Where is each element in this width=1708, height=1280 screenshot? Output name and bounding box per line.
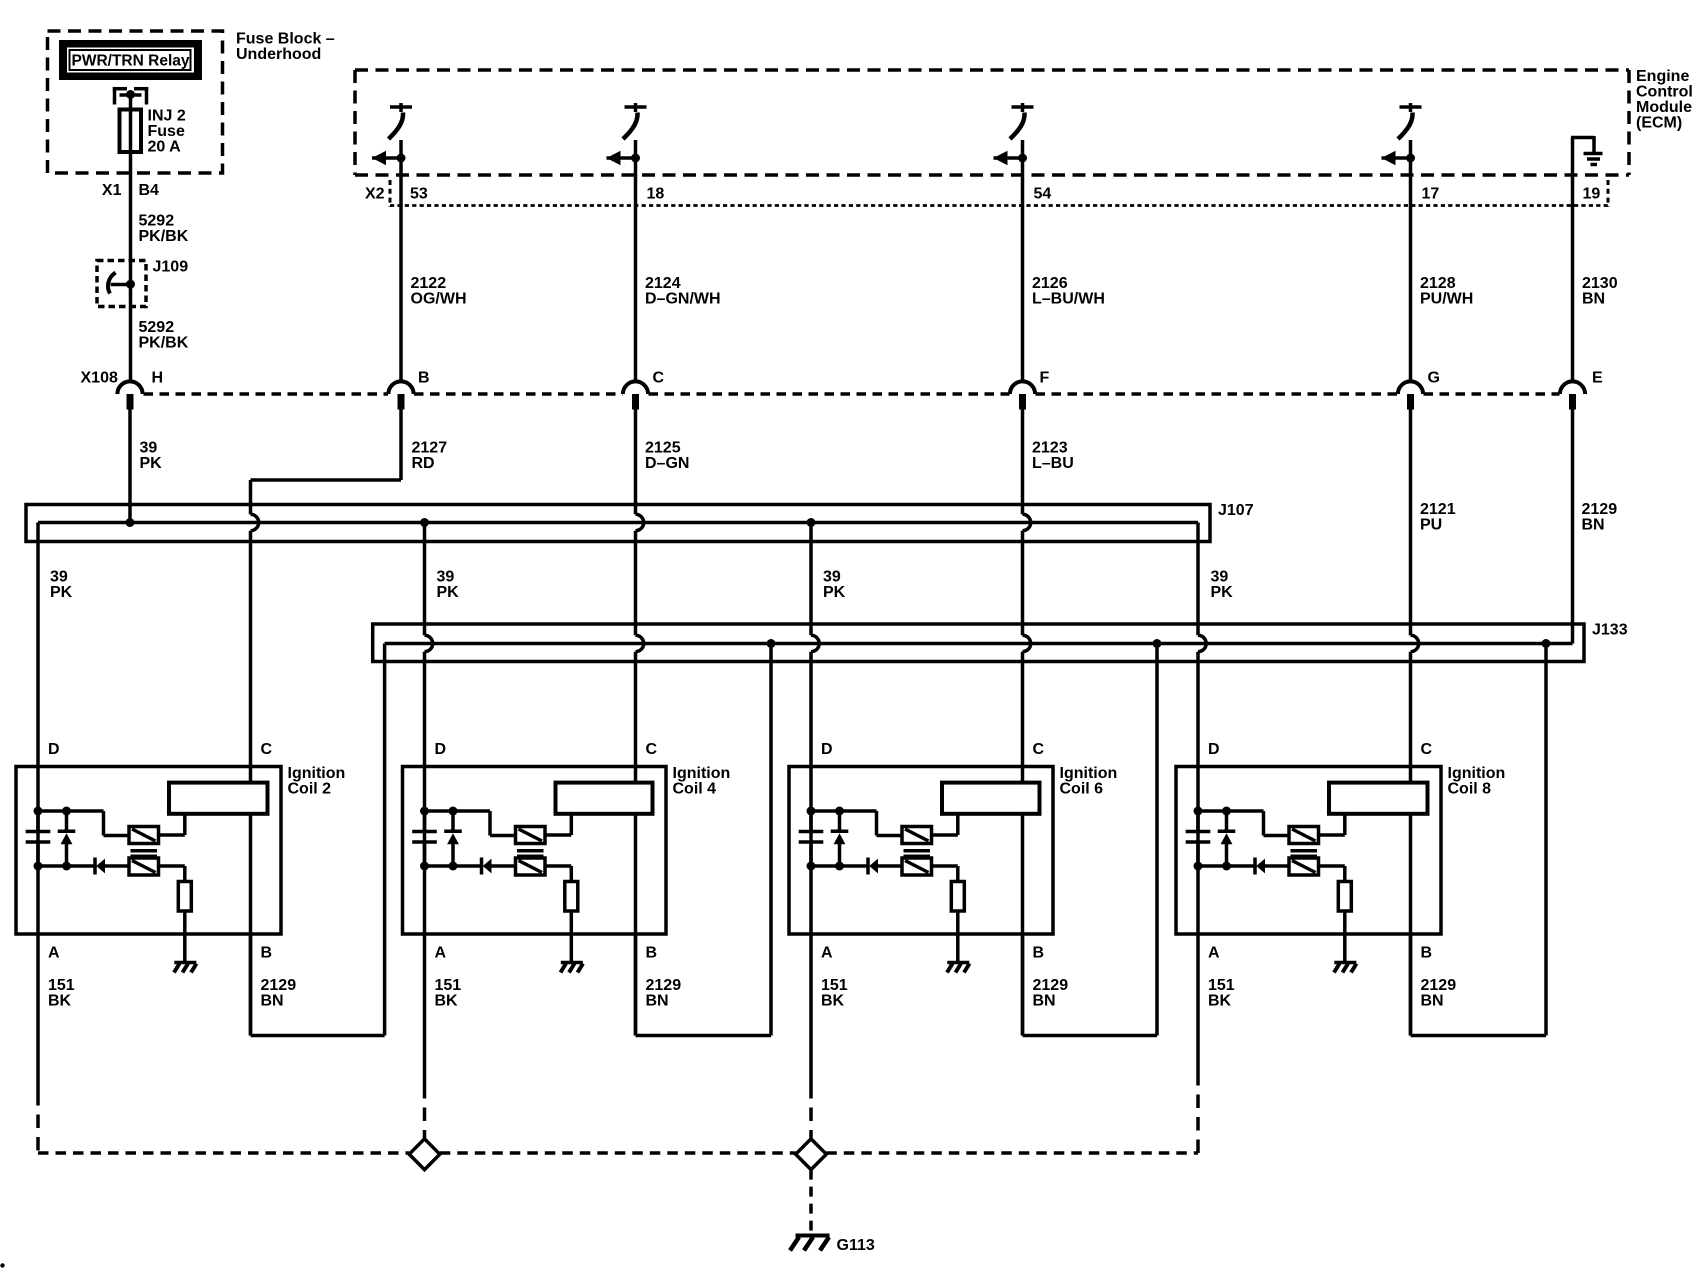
svg-text:BN: BN [1582,290,1605,307]
svg-text:Engine: Engine [1636,68,1689,85]
svg-text:C: C [1421,741,1433,758]
svg-text:Coil 8: Coil 8 [1448,780,1492,797]
svg-text:B: B [418,370,430,387]
svg-text:BK: BK [48,992,72,1009]
svg-text:BN: BN [1421,992,1444,1009]
svg-text:J133: J133 [1592,622,1628,639]
svg-text:H: H [152,370,164,387]
svg-text:PK: PK [50,584,73,601]
svg-text:PK: PK [140,455,163,472]
svg-text:PWR/TRN Relay: PWR/TRN Relay [72,53,190,70]
svg-text:54: 54 [1034,186,1052,203]
svg-text:A: A [435,945,447,962]
svg-text:X108: X108 [81,370,118,387]
svg-text:X2: X2 [365,186,385,203]
svg-text:BK: BK [1208,992,1232,1009]
svg-text:L–BU/WH: L–BU/WH [1032,290,1105,307]
svg-text:PU/WH: PU/WH [1420,290,1473,307]
svg-text:(ECM): (ECM) [1636,115,1682,132]
svg-text:J107: J107 [1218,502,1254,519]
svg-text:G: G [1428,370,1440,387]
svg-text:C: C [261,741,273,758]
svg-text:A: A [48,945,60,962]
svg-text:18: 18 [647,186,665,203]
svg-text:PU: PU [1420,516,1442,533]
svg-text:C: C [1033,741,1045,758]
svg-text:Fuse Block –: Fuse Block – [236,31,335,48]
svg-text:19: 19 [1583,186,1601,203]
svg-text:OG/WH: OG/WH [411,290,467,307]
svg-text:D–GN/WH: D–GN/WH [645,290,721,307]
svg-text:X1: X1 [102,182,122,199]
svg-text:Fuse: Fuse [148,123,185,140]
svg-text:J109: J109 [153,259,189,276]
svg-text:Module: Module [1636,99,1692,116]
svg-text:D: D [821,741,833,758]
svg-text:BN: BN [1033,992,1056,1009]
svg-text:Control: Control [1636,84,1693,101]
svg-text:G113: G113 [837,1237,875,1254]
svg-text:PK: PK [437,584,460,601]
svg-text:C: C [653,370,665,387]
svg-text:C: C [646,741,658,758]
svg-text:INJ 2: INJ 2 [148,108,186,125]
svg-text:PK/BK: PK/BK [139,334,189,351]
svg-text:Underhood: Underhood [236,46,321,63]
svg-text:BK: BK [435,992,459,1009]
svg-text:B: B [261,945,273,962]
svg-text:B4: B4 [139,182,160,199]
svg-text:PK: PK [823,584,846,601]
svg-text:BN: BN [261,992,284,1009]
svg-text:BN: BN [1582,516,1605,533]
svg-text:D: D [1208,741,1220,758]
svg-text:B: B [1421,945,1433,962]
svg-text:D: D [435,741,447,758]
svg-text:F: F [1040,370,1050,387]
svg-text:PK: PK [1211,584,1234,601]
svg-text:Coil 2: Coil 2 [288,780,332,797]
svg-text:RD: RD [412,455,435,472]
svg-text:D: D [48,741,60,758]
svg-text:A: A [821,945,833,962]
svg-text:E: E [1592,370,1603,387]
svg-text:B: B [646,945,658,962]
svg-text:PK/BK: PK/BK [139,228,189,245]
svg-text:53: 53 [410,186,428,203]
svg-text:Coil 6: Coil 6 [1060,780,1104,797]
svg-text:B: B [1033,945,1045,962]
svg-text:Coil 4: Coil 4 [673,780,717,797]
svg-text:BK: BK [821,992,845,1009]
svg-text:D–GN: D–GN [645,455,689,472]
svg-text:L–BU: L–BU [1032,455,1074,472]
svg-text:20 A: 20 A [148,139,182,156]
svg-text:BN: BN [646,992,669,1009]
svg-text:A: A [1208,945,1220,962]
svg-text:17: 17 [1422,186,1440,203]
